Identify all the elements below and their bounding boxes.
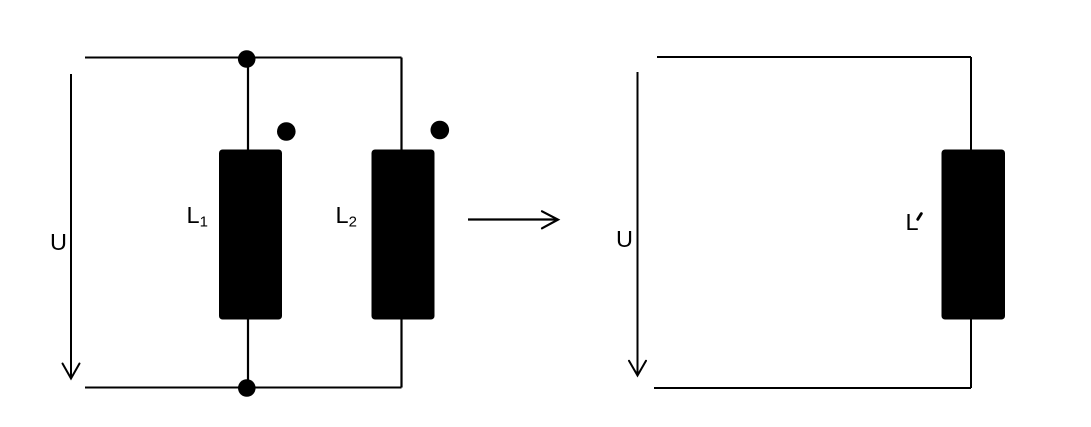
svg-text:L: L (906, 209, 919, 235)
svg-text:U: U (616, 226, 633, 252)
svg-text:U: U (50, 229, 67, 255)
